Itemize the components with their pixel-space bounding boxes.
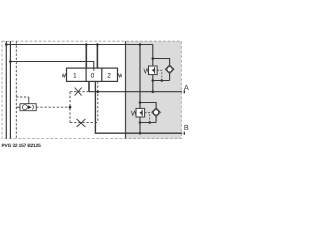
spring of shock valve A [144, 69, 149, 73]
wire: shock B outlet [139, 117, 141, 123]
wire: P vertical rail [5, 41, 7, 138]
node tank top [139, 43, 142, 46]
spring right of valve [118, 74, 122, 77]
node on B line [139, 132, 142, 135]
spring of shock valve B [131, 111, 136, 115]
node loop B [139, 121, 142, 124]
pilot dashed to upper actuator port [70, 91, 89, 93]
node pilot B on loop [148, 121, 151, 124]
check valve B [152, 108, 160, 116]
pilot supply dashed vertical line [15, 41, 17, 138]
section boundary line [125, 41, 127, 138]
plugged port X2 [77, 119, 86, 127]
pilot dashed to lower actuator port [70, 122, 98, 124]
wire: shock A outlet [152, 75, 154, 81]
wire: shock B bottom loop [140, 122, 156, 124]
wire: valve feed drop 2 [96, 45, 98, 69]
pilot branch dashed into component [16, 96, 29, 98]
wire: work port A line [89, 91, 182, 93]
node LS tap on A line [97, 90, 100, 93]
wire: rail corner down to shock valve A [153, 45, 170, 66]
pilot dashed of shock valve B [145, 113, 150, 123]
node shock A branch [152, 57, 155, 60]
wire: tank connector stub into centre position [93, 68, 95, 71]
valve position labels [73, 72, 111, 79]
main valve spool (positions 1-0-2) [67, 68, 118, 81]
wire: shock A bottom loop [153, 80, 170, 82]
wire: work port A drop [88, 81, 90, 91]
node at T rail junction [9, 60, 12, 63]
svg-text:2: 2 [107, 72, 111, 79]
port A end tick [183, 90, 185, 93]
node loop A [152, 79, 155, 82]
wire: branch into shock valve A [152, 59, 154, 67]
plugged port X1 [75, 88, 82, 96]
wire: top rail horizontal [6, 44, 153, 46]
check valve A [165, 65, 173, 73]
wire: work port B drop [95, 81, 182, 133]
wire: tank vertical in valve block [139, 45, 141, 109]
wire: drop to A line [152, 81, 154, 92]
LS dashed line from spool [97, 81, 99, 122]
svg-text:0: 0 [91, 72, 95, 79]
node branch B [139, 101, 142, 104]
pilot dashed of shock valve A [157, 70, 162, 80]
shock relief valve B [136, 108, 145, 117]
spring left of valve [62, 74, 66, 77]
valve section block (gray) [125, 41, 181, 138]
node on A line [152, 90, 155, 93]
svg-text:1: 1 [73, 72, 77, 79]
pilot supply component (left module) [16, 104, 36, 111]
pilot dashed vertical between actuators [69, 92, 71, 123]
wire: drop to B line [139, 123, 141, 134]
node at P rail junction [5, 43, 8, 46]
node pilot junction [69, 106, 72, 109]
wire: check B bottom [155, 117, 157, 123]
svg-text:A: A [184, 83, 189, 92]
svg-text:PVG 32 157 B2125: PVG 32 157 B2125 [2, 143, 42, 149]
shock relief valve A [149, 66, 158, 75]
node on top rail [85, 43, 88, 46]
wire: branch to check valve B [140, 103, 156, 109]
node on top rail [96, 43, 99, 46]
port B end tick [183, 132, 185, 135]
wire: T vertical rail [9, 41, 11, 138]
pilot dashed from component to actuators [36, 106, 70, 108]
svg-text:B: B [184, 123, 189, 132]
wire: check A bottom [169, 74, 171, 81]
module boundary (dashed) [2, 41, 181, 138]
node pilot A on loop [161, 79, 164, 82]
wire: second rail horizontal [10, 62, 93, 69]
wire: connector into component top [28, 97, 30, 104]
wire: valve feed drop 1 [85, 45, 87, 69]
